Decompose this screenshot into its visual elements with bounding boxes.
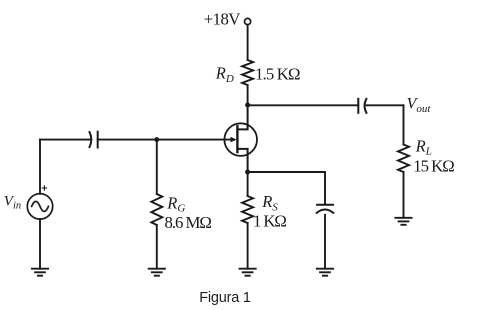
node drain junction: [245, 103, 250, 108]
transistor Q1 source lead: [237, 149, 247, 172]
source V_in (AC source): [27, 194, 52, 219]
wire V_in up: [39, 140, 41, 194]
wire R_G to ground: [156, 225, 158, 269]
ground (under R_G): [149, 269, 165, 276]
wire C2 to V_out corner: [367, 104, 404, 106]
wire R_D to drain node: [247, 85, 249, 105]
svg-text:RL: RL: [415, 136, 432, 157]
transistor Q1 channel bar: [236, 126, 238, 152]
resistor R_L 15 KΩ: [398, 145, 409, 173]
svg-text:8.6 MΩ: 8.6 MΩ: [165, 213, 212, 232]
capacitor C1 input coupling: [90, 132, 98, 148]
ground (under V_in): [32, 269, 48, 276]
wire drain node to output capacitor: [248, 104, 359, 106]
capacitor C2 output coupling: [358, 99, 366, 113]
svg-text:1.5 KΩ: 1.5 KΩ: [255, 65, 300, 84]
wire V_in to input capacitor: [40, 139, 90, 141]
wire corner down to R_L: [403, 105, 405, 144]
wire source node down to R_S: [247, 172, 249, 196]
wire R_L to ground: [403, 172, 405, 218]
svg-text:RD: RD: [215, 64, 234, 85]
node source junction: [245, 170, 250, 175]
wire C1 to gate: [98, 139, 231, 141]
svg-text:Vout: Vout: [407, 96, 432, 115]
wire source node to bypass capacitor corner: [248, 172, 325, 204]
svg-text:+18V: +18V: [204, 9, 240, 28]
+18V supply terminal: [245, 18, 251, 24]
wire R_S to ground: [247, 223, 249, 269]
ground (under C3): [317, 269, 333, 276]
transistor Q1 JFET body: [224, 123, 257, 156]
svg-text:RG: RG: [166, 193, 185, 214]
svg-text:Figura 1: Figura 1: [199, 290, 251, 306]
svg-text:RS: RS: [261, 192, 278, 213]
transistor Q1 drain lead: [237, 105, 247, 129]
wire terminal to R_D: [247, 25, 249, 60]
resistor R_D 1.5 KΩ: [242, 60, 253, 85]
transistor Q1 gate arrowhead: [231, 137, 237, 143]
wire gate node down to R_G: [156, 140, 158, 194]
node gate junction: [154, 137, 159, 142]
wire V_in to ground: [39, 219, 41, 269]
V_in plus sign: [42, 186, 46, 190]
ground (under R_S): [240, 269, 256, 276]
svg-text:15 KΩ: 15 KΩ: [413, 156, 454, 175]
svg-text:Vin: Vin: [4, 194, 21, 212]
resistor R_G 8.6 MΩ: [151, 194, 162, 225]
svg-text:1 KΩ: 1 KΩ: [253, 212, 286, 231]
wire C3 to ground: [324, 215, 326, 269]
resistor R_S 1 KΩ: [242, 196, 253, 223]
ground (under R_L): [395, 218, 411, 225]
capacitor C3 source bypass: [317, 205, 334, 213]
